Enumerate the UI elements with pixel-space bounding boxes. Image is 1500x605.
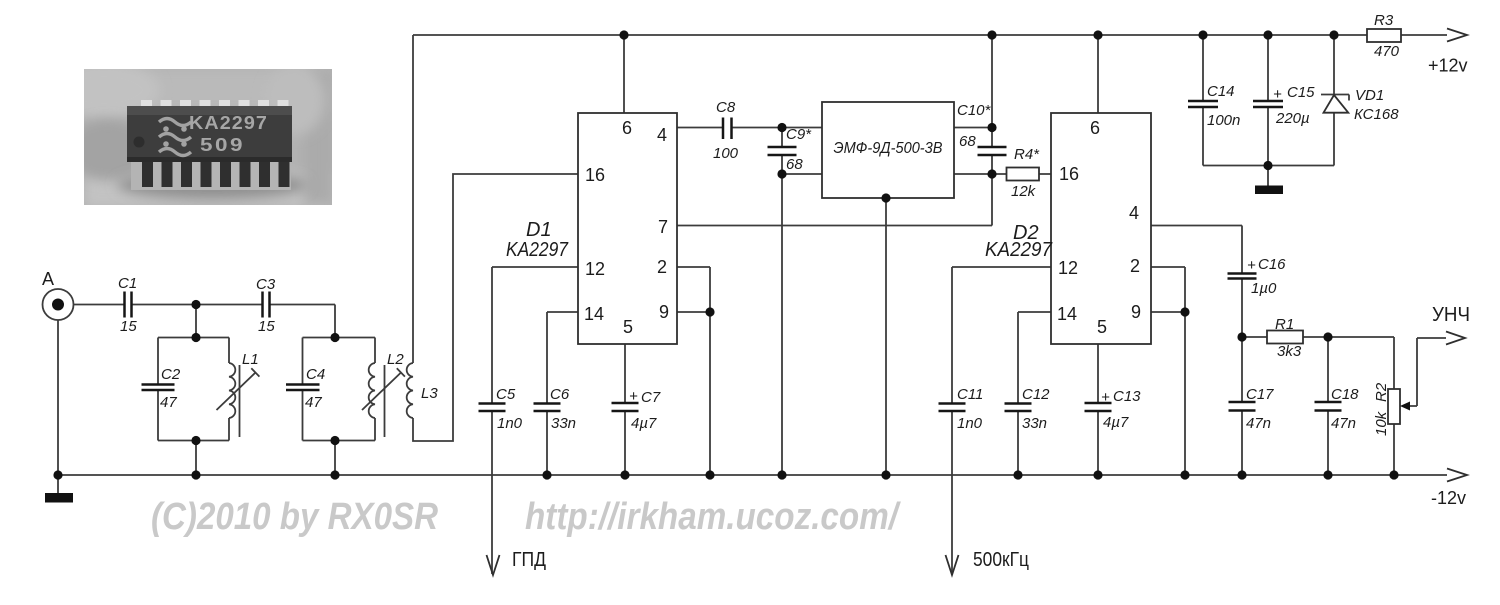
- svg-text:+: +: [1247, 257, 1256, 274]
- svg-text:C14: C14: [1207, 83, 1235, 100]
- svg-text:+: +: [1273, 86, 1282, 103]
- svg-text:6: 6: [1090, 118, 1100, 138]
- svg-text:4µ7: 4µ7: [1103, 414, 1129, 431]
- svg-text:L2: L2: [387, 351, 404, 368]
- svg-text:4µ7: 4µ7: [631, 415, 657, 432]
- svg-text:100n: 100n: [1207, 112, 1240, 129]
- svg-text:C16: C16: [1258, 256, 1286, 273]
- svg-text:47n: 47n: [1246, 415, 1271, 432]
- svg-text:16: 16: [585, 165, 605, 185]
- svg-text:10k: 10k: [1373, 410, 1390, 436]
- svg-text:C12: C12: [1022, 386, 1050, 403]
- svg-text:+: +: [1101, 389, 1110, 406]
- svg-text:47: 47: [160, 394, 177, 411]
- svg-text:L1: L1: [242, 351, 259, 368]
- svg-text:6: 6: [622, 118, 632, 138]
- svg-text:33n: 33n: [1022, 415, 1047, 432]
- svg-text:VD1: VD1: [1355, 87, 1384, 104]
- svg-text:(C)2010 by RX0SR: (C)2010 by RX0SR: [151, 496, 438, 538]
- svg-text:9: 9: [1131, 302, 1141, 322]
- svg-text:12: 12: [1058, 258, 1078, 278]
- svg-text:16: 16: [1059, 164, 1079, 184]
- svg-text:C15: C15: [1287, 84, 1315, 101]
- svg-text:D1: D1: [526, 219, 552, 241]
- svg-text:5: 5: [1097, 317, 1107, 337]
- svg-text:R4*: R4*: [1014, 146, 1040, 163]
- svg-text:R2: R2: [1373, 382, 1390, 402]
- svg-text:KA2297: KA2297: [506, 239, 569, 261]
- svg-text:9: 9: [659, 302, 669, 322]
- svg-text:C9*: C9*: [786, 126, 812, 143]
- svg-text:15: 15: [120, 318, 137, 335]
- svg-text:1n0: 1n0: [497, 415, 523, 432]
- svg-text:R1: R1: [1275, 316, 1294, 333]
- svg-text:47n: 47n: [1331, 415, 1356, 432]
- svg-text:2: 2: [657, 257, 667, 277]
- svg-text:4: 4: [1129, 203, 1139, 223]
- svg-text:C11: C11: [957, 386, 983, 403]
- svg-text:C18: C18: [1331, 386, 1359, 403]
- svg-text:C3: C3: [256, 276, 276, 293]
- svg-text:C1: C1: [118, 275, 137, 292]
- svg-text:220µ: 220µ: [1275, 110, 1310, 127]
- svg-text:C13: C13: [1113, 388, 1141, 405]
- svg-text:R3: R3: [1374, 12, 1394, 29]
- svg-text:100: 100: [713, 145, 739, 162]
- svg-text:C8: C8: [716, 99, 736, 116]
- svg-text:A: A: [42, 269, 54, 289]
- svg-text:1n0: 1n0: [957, 415, 983, 432]
- svg-text:33n: 33n: [551, 415, 576, 432]
- svg-text:C17: C17: [1246, 386, 1274, 403]
- svg-text:L3: L3: [421, 385, 438, 402]
- svg-text:ЭМФ-9Д-500-3В: ЭМФ-9Д-500-3В: [834, 140, 943, 157]
- svg-text:C6: C6: [550, 386, 570, 403]
- svg-text:2: 2: [1130, 256, 1140, 276]
- svg-text:7: 7: [658, 217, 668, 237]
- svg-text:KA2297: KA2297: [189, 113, 268, 133]
- svg-text:КС168: КС168: [1354, 106, 1399, 123]
- svg-text:470: 470: [1374, 43, 1400, 60]
- svg-text:ГПД: ГПД: [512, 549, 546, 571]
- svg-text:1µ0: 1µ0: [1251, 280, 1277, 297]
- svg-text:C2: C2: [161, 366, 181, 383]
- svg-text:14: 14: [1057, 304, 1077, 324]
- svg-text:C7: C7: [641, 389, 661, 406]
- svg-text:4: 4: [657, 125, 667, 145]
- svg-text:509: 509: [200, 135, 245, 155]
- svg-text:68: 68: [959, 133, 976, 150]
- svg-text:KA2297: KA2297: [985, 239, 1053, 261]
- svg-text:47: 47: [305, 394, 322, 411]
- svg-text:C10*: C10*: [957, 102, 992, 119]
- svg-text:15: 15: [258, 318, 275, 335]
- svg-text:12k: 12k: [1011, 183, 1037, 200]
- svg-text:500кГц: 500кГц: [973, 549, 1029, 571]
- svg-text:3k3: 3k3: [1277, 343, 1302, 360]
- svg-text:14: 14: [584, 304, 604, 324]
- svg-text:-12v: -12v: [1431, 488, 1466, 508]
- svg-text:http://irkham.ucoz.com/: http://irkham.ucoz.com/: [525, 496, 901, 538]
- svg-text:УНЧ: УНЧ: [1432, 304, 1470, 326]
- svg-text:68: 68: [786, 156, 803, 173]
- svg-text:12: 12: [585, 259, 605, 279]
- svg-text:+12v: +12v: [1428, 56, 1468, 76]
- svg-text:5: 5: [623, 317, 633, 337]
- svg-text:C5: C5: [496, 386, 516, 403]
- svg-text:C4: C4: [306, 366, 325, 383]
- svg-text:+: +: [629, 388, 638, 405]
